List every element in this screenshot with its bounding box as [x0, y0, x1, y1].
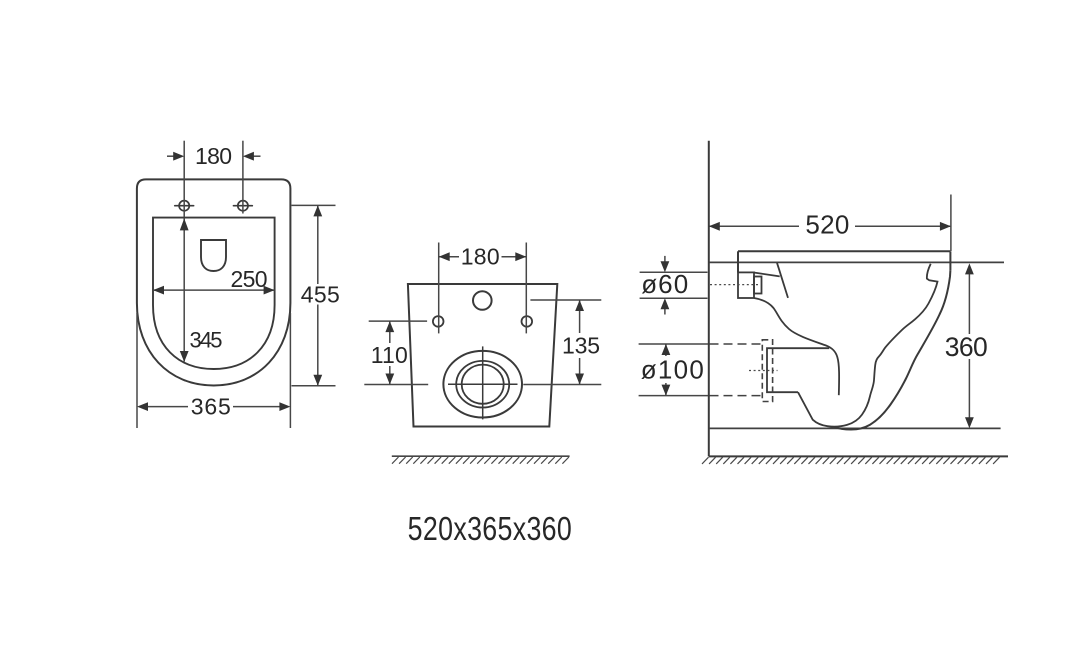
side view: drain dashed leader lines	[710, 344, 763, 396]
dimension ø100: extension lines	[639, 343, 708, 345]
svg-text:365: 365	[191, 394, 231, 420]
dimension ø60: extension lines	[640, 271, 708, 273]
side view: water inlet spud block	[738, 272, 754, 298]
rear view: drain cross centerlines	[448, 383, 518, 385]
dimension 250: arrowheads	[153, 286, 275, 295]
side view: drain spigot outline	[767, 348, 829, 392]
dimension 520: dimension line	[710, 225, 800, 227]
dimension 365: arrowheads	[137, 402, 290, 411]
dimension 180 (rear view): arrowheads	[439, 252, 527, 261]
svg-text:ø60: ø60	[641, 269, 688, 299]
dimension 180 (rear view): extension lines	[438, 243, 440, 334]
dimension 520: extension line	[950, 195, 952, 252]
rear view: left mounting hole	[433, 316, 444, 327]
dimension 455: dimension line	[317, 206, 319, 284]
dimension 250: dimension line	[153, 289, 275, 291]
dimension 135: arrowheads	[575, 300, 584, 385]
dimension 455: arrowheads	[313, 205, 322, 385]
rear view: body outline (tapered)	[408, 284, 557, 427]
top view: outer rim of bowl	[137, 179, 291, 385]
rear view: top inlet hole	[473, 291, 492, 310]
rear view: drain outer ring	[443, 351, 522, 418]
dimension 180 (top view): arrow tails	[167, 155, 176, 157]
svg-text:250: 250	[231, 266, 268, 292]
dimension 365: dimension line	[147, 406, 188, 408]
dimension 110: extension lines	[369, 320, 427, 322]
side view: seat front edge	[949, 251, 951, 270]
dimension 180 (rear view): dimension line	[439, 256, 459, 258]
dimension 520: arrowheads	[709, 222, 951, 231]
top view: left mounting hole	[175, 201, 194, 211]
side view: floor line	[709, 455, 1008, 457]
dimension 360: arrowheads	[965, 263, 974, 428]
side view: drain dotted centerline	[749, 370, 778, 372]
rear view: drain inner ring	[462, 365, 504, 404]
side view: water inlet spud lip	[754, 277, 762, 294]
svg-text:455: 455	[301, 281, 340, 307]
dimension ø60: arrow tails	[664, 256, 666, 263]
side view: bottom reference line	[709, 427, 1001, 429]
side view: drain dashed box	[762, 340, 772, 402]
dimension 110: dimension line	[389, 322, 391, 344]
dimension 455: extension lines	[292, 204, 336, 206]
top view: flush water inlet cup	[201, 240, 226, 271]
side view: seat top	[738, 250, 950, 252]
svg-text:180: 180	[195, 143, 232, 169]
dimension 365: extension lines	[136, 313, 138, 428]
dimension 360: dimension line	[968, 274, 970, 335]
svg-text:180: 180	[461, 244, 500, 270]
side view: inlet spud dotted centerline	[710, 284, 759, 286]
svg-text:360: 360	[945, 332, 988, 362]
top view: inner rim of bowl	[153, 218, 275, 369]
svg-text:110: 110	[371, 342, 408, 368]
dimension ø60: arrowheads	[661, 261, 670, 309]
side view: bowl inner rim profile	[798, 264, 938, 427]
top view: right mounting hole	[234, 201, 253, 211]
svg-text:135: 135	[562, 333, 600, 359]
rear view: ground hatching	[392, 457, 569, 464]
side view: seat back edge	[737, 251, 739, 272]
dimension ø100: arrowheads	[662, 344, 671, 396]
rear view: ground line	[392, 455, 570, 457]
svg-text:520x365x360: 520x365x360	[408, 511, 572, 547]
side view: wall line	[709, 141, 1008, 457]
dimension 345: dimension line	[183, 218, 185, 362]
side view: bowl outer profile	[835, 270, 951, 429]
rear view: right mounting hole	[522, 316, 533, 327]
svg-text:345: 345	[190, 328, 223, 353]
side view: seat back slant line	[777, 263, 788, 298]
dimension 180 (top view): extension lines	[183, 141, 185, 217]
side view: rim top slope line	[755, 273, 780, 277]
dimension 135: dimension line	[579, 301, 581, 334]
side view: bowl back S-curve	[754, 298, 839, 395]
side view: floor hatching	[702, 457, 1000, 464]
dimension 110: arrowheads	[385, 321, 394, 384]
svg-text:ø100: ø100	[641, 355, 704, 385]
rear view: drain middle ring	[456, 361, 509, 408]
side view: top reference line (rim level)	[709, 261, 1004, 263]
dimension ø100: dimension line	[665, 345, 667, 357]
dimension 180 (top view): arrowheads	[173, 152, 254, 161]
caption: overall dimensions	[408, 511, 572, 547]
dimension 345: arrowheads	[180, 218, 189, 362]
dimension 135: extension lines	[530, 299, 601, 301]
svg-text:520: 520	[805, 210, 849, 240]
